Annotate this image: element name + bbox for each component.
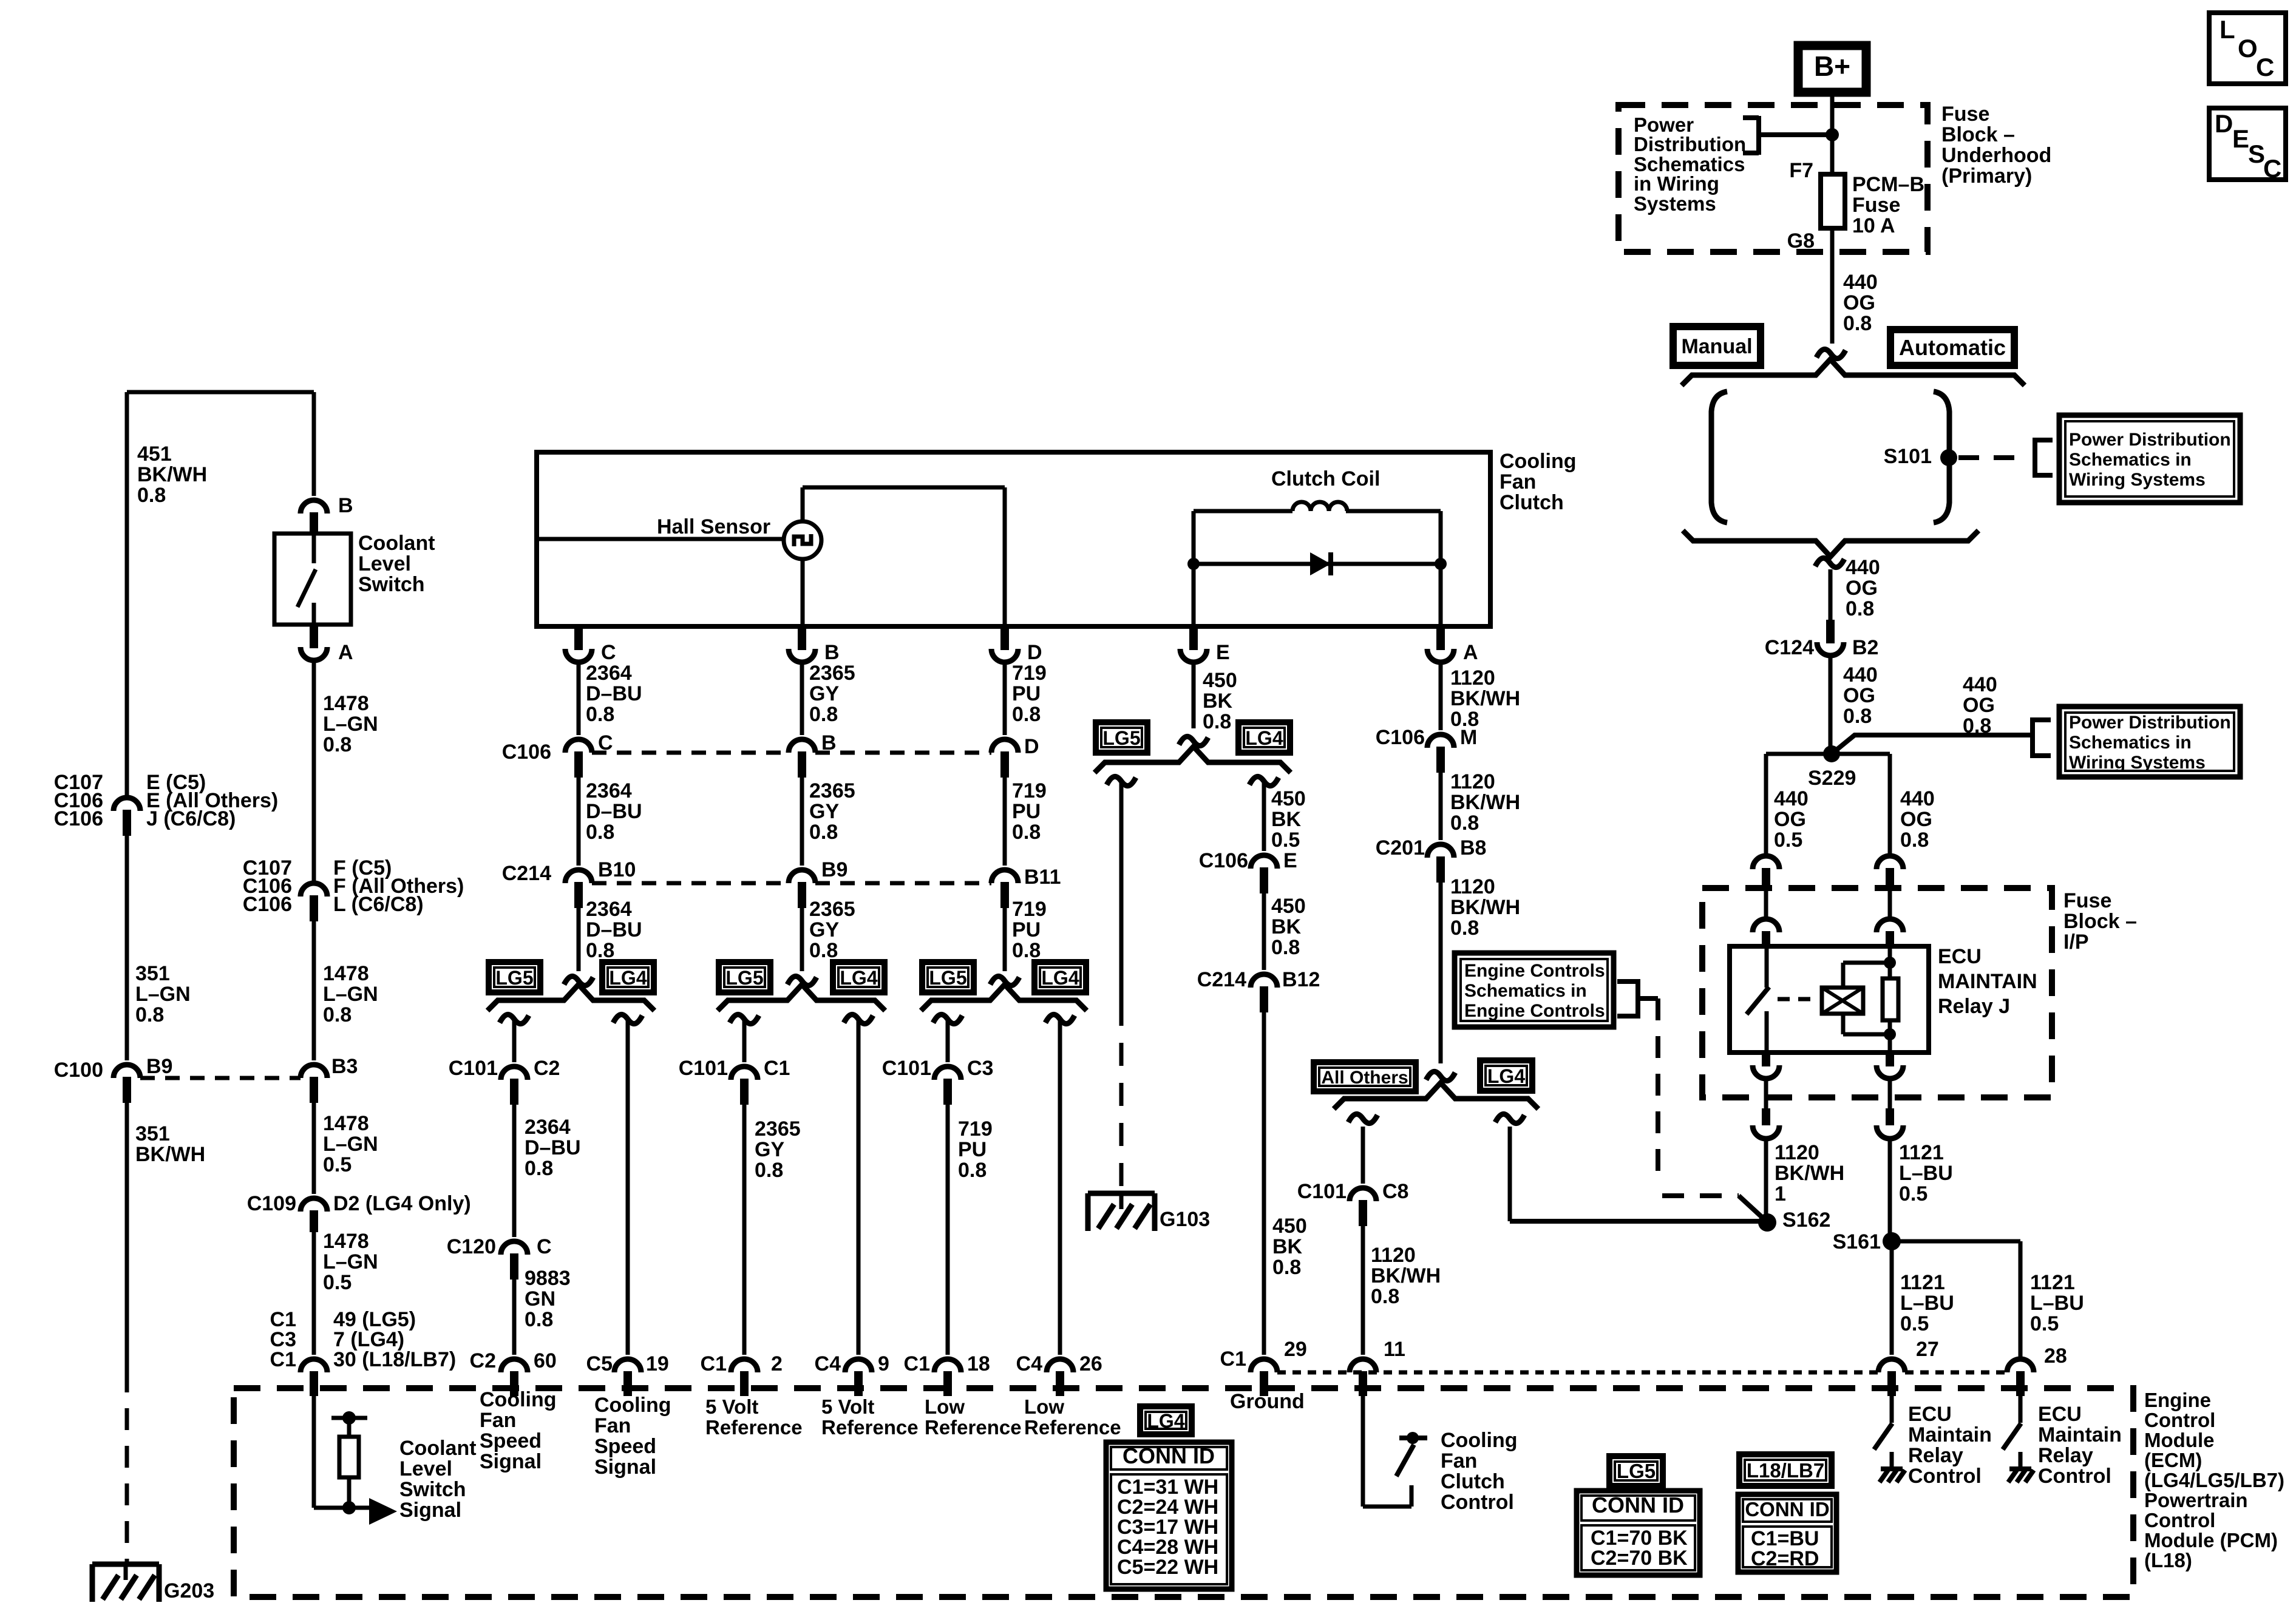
svg-text:Fan: Fan — [480, 1409, 516, 1432]
connector C214 pin B11 — [991, 870, 1018, 883]
svg-text:0.8: 0.8 — [525, 1308, 553, 1331]
svg-text:C: C — [2263, 154, 2281, 183]
wires to LG5/LG4 splits with labels — [577, 901, 581, 971]
split brace — [487, 985, 654, 1011]
svg-text:I/P: I/P — [2063, 931, 2089, 954]
svg-text:C106: C106 — [1376, 726, 1425, 749]
svg-text:C1: C1 — [701, 1352, 727, 1375]
svg-text:10 A: 10 A — [1852, 214, 1895, 237]
svg-text:Schematics in: Schematics in — [2069, 450, 2192, 470]
LG4 branch wire to ECM pin 9 — [857, 1021, 861, 1355]
wire relay to S162, 1120 BK/WH 1 — [1764, 1139, 1768, 1222]
svg-text:0.8: 0.8 — [586, 821, 614, 844]
svg-text:C4: C4 — [1016, 1352, 1043, 1375]
svg-text:LG5: LG5 — [495, 967, 533, 989]
svg-text:Module (PCM): Module (PCM) — [2144, 1529, 2278, 1551]
wire 450 BK 0.8 to ECM pin 29 — [1262, 1005, 1266, 1355]
svg-text:B8: B8 — [1460, 836, 1486, 859]
svg-text:1478: 1478 — [323, 692, 369, 715]
Power Distribution Schematics in Wiring Systems box (S229) — [2059, 707, 2240, 777]
LG5 branch wire to C101 C3 — [946, 1021, 950, 1062]
ECM pin C4/9 connector — [845, 1359, 872, 1372]
wire 1120 BK/WH 0.8 to All Others split — [1439, 875, 1443, 1063]
svg-text:11: 11 — [1384, 1338, 1405, 1361]
svg-text:Low: Low — [1024, 1395, 1064, 1418]
svg-text:C5: C5 — [586, 1352, 613, 1375]
svg-text:Schematics in: Schematics in — [2069, 733, 2192, 753]
fuse block I/P dashed box — [1702, 888, 2052, 1097]
svg-text:G8: G8 — [1787, 229, 1815, 253]
relay feed connector left lower — [1753, 919, 1779, 932]
right branch break — [1495, 1114, 1524, 1123]
wire left down to C100 — [125, 829, 129, 1060]
svg-text:719: 719 — [1012, 898, 1047, 921]
svg-text:440: 440 — [1774, 787, 1809, 810]
svg-text:(Primary): (Primary) — [1941, 164, 2032, 188]
svg-text:L–GN: L–GN — [323, 1250, 378, 1273]
svg-text:BK: BK — [1272, 1235, 1303, 1258]
clutch coil branch — [1192, 511, 1196, 626]
wire C124 to S229, 440 OG 0.8 — [1829, 656, 1833, 754]
ground G203 — [92, 1562, 159, 1567]
svg-text:L–BU: L–BU — [2030, 1292, 2084, 1315]
wire B first segment — [800, 662, 804, 735]
svg-text:L–BU: L–BU — [1900, 1292, 1954, 1315]
left harness bracket — [1711, 392, 1727, 523]
svg-text:LG5: LG5 — [1617, 1460, 1656, 1482]
svg-text:60: 60 — [534, 1349, 557, 1372]
connector pin B at coolant level switch — [301, 500, 327, 514]
svg-text:C106: C106 — [502, 741, 551, 764]
fuse F7 PCM-B 10A — [1821, 174, 1845, 228]
ECM interface dotted row — [1277, 1371, 1878, 1375]
svg-text:C1: C1 — [270, 1348, 296, 1371]
ECM pin C1/29 connector — [1251, 1359, 1277, 1372]
connector C214 pin B9 — [789, 870, 815, 883]
relay switch-to-coil dashed link — [1778, 997, 1818, 1002]
svg-text:451: 451 — [137, 442, 172, 466]
svg-text:G203: G203 — [164, 1579, 214, 1602]
svg-text:Low: Low — [925, 1395, 965, 1418]
wire relay to S161, 1121 L-BU 0.5 — [1888, 1139, 1892, 1241]
ECU MAINTAIN Relay J box — [1730, 946, 1929, 1053]
relay resistor — [1883, 978, 1898, 1020]
svg-text:B9: B9 — [146, 1055, 172, 1078]
connector C124 pin B2 — [1826, 620, 1835, 643]
svg-text:L–BU: L–BU — [1899, 1162, 1953, 1185]
svg-text:Underhood: Underhood — [1941, 144, 2051, 167]
svg-text:LG4: LG4 — [1147, 1410, 1184, 1432]
svg-text:L–GN: L–GN — [135, 983, 191, 1006]
left branch break — [730, 1014, 759, 1023]
right branch wire to S162 — [1508, 1127, 1512, 1221]
svg-text:B12: B12 — [1282, 968, 1320, 991]
svg-text:E: E — [1283, 849, 1297, 872]
connector C120 pin C — [501, 1241, 528, 1255]
svg-text:440: 440 — [1843, 271, 1878, 294]
svg-text:D–BU: D–BU — [586, 682, 642, 705]
svg-text:Ground: Ground — [1230, 1390, 1305, 1413]
svg-text:PU: PU — [1012, 800, 1041, 823]
svg-text:Wiring Systems: Wiring Systems — [2069, 753, 2206, 773]
svg-text:9: 9 — [878, 1352, 889, 1375]
svg-text:440: 440 — [1846, 556, 1880, 579]
svg-text:450: 450 — [1203, 669, 1237, 692]
svg-text:LG4: LG4 — [1041, 967, 1079, 989]
svg-text:9883: 9883 — [525, 1267, 571, 1290]
svg-text:0.5: 0.5 — [2030, 1312, 2059, 1335]
svg-text:B10: B10 — [598, 858, 636, 881]
svg-text:(LG4/LG5/LB7): (LG4/LG5/LB7) — [2144, 1469, 2284, 1491]
svg-text:2365: 2365 — [809, 779, 855, 802]
svg-text:Coolant: Coolant — [399, 1437, 477, 1460]
svg-text:Schematics in: Schematics in — [1464, 981, 1587, 1001]
svg-text:B2: B2 — [1852, 636, 1878, 659]
hall sensor circle — [784, 521, 821, 559]
svg-text:Clutch: Clutch — [1441, 1470, 1505, 1493]
connector C214 pin B12 — [1251, 974, 1277, 988]
LG4 harness box above CONN ID — [1140, 1406, 1192, 1434]
wire 719 PU 0.8 to ECM pin 18 — [946, 1097, 950, 1355]
break above split at 953 — [564, 976, 593, 985]
svg-text:C106: C106 — [243, 893, 292, 916]
svg-text:Powertrain: Powertrain — [2144, 1489, 2248, 1511]
svg-text:C214: C214 — [1197, 968, 1246, 991]
svg-text:0.8: 0.8 — [1843, 312, 1872, 335]
coolant level switch blade — [312, 534, 316, 563]
svg-text:0.5: 0.5 — [1271, 829, 1300, 852]
wire C109 to ECM pin, 1478 L-GN 0.5 — [312, 1229, 316, 1355]
left branch break — [933, 1014, 962, 1023]
svg-text:L–GN: L–GN — [323, 983, 378, 1006]
svg-text:Maintain: Maintain — [1908, 1423, 1992, 1446]
svg-text:1121: 1121 — [2030, 1271, 2075, 1294]
connector C100 pin B9 — [114, 1065, 140, 1078]
L18/LB7 harness box above CONN ID — [1739, 1454, 1832, 1486]
svg-text:1120: 1120 — [1450, 770, 1495, 793]
svg-text:2365: 2365 — [809, 662, 855, 685]
split brace — [921, 985, 1087, 1011]
svg-text:C2: C2 — [470, 1349, 496, 1372]
svg-text:Clutch: Clutch — [1500, 491, 1564, 514]
svg-text:Relay: Relay — [2038, 1444, 2093, 1467]
wire fuse to manual/automatic split, 440 OG 0.8 — [1830, 228, 1835, 344]
svg-text:Relay: Relay — [1908, 1444, 1963, 1467]
wire 1120 BK/WH 0.8 to ECM pin 11 — [1361, 1219, 1365, 1355]
wire box edge to hall sensor — [537, 537, 784, 541]
svg-text:0.8: 0.8 — [1271, 936, 1300, 959]
svg-text:Control: Control — [2038, 1465, 2111, 1488]
LG4 harness box — [602, 962, 654, 992]
svg-text:Reference: Reference — [1024, 1416, 1121, 1439]
right harness bracket — [1934, 392, 1949, 523]
svg-text:D: D — [1024, 735, 1039, 758]
wire 450 BK 0.8 to split — [1192, 662, 1196, 728]
svg-text:G103: G103 — [1160, 1208, 1210, 1231]
svg-text:BK/WH: BK/WH — [137, 463, 207, 486]
svg-text:Block –: Block – — [1941, 123, 2015, 146]
wire into ECM coolant level signal — [312, 1390, 316, 1508]
svg-text:0.8: 0.8 — [1963, 714, 1991, 737]
relay output connector left upper — [1762, 1053, 1770, 1066]
svg-text:C100: C100 — [54, 1059, 103, 1082]
svg-text:2364: 2364 — [586, 779, 632, 802]
svg-text:OG: OG — [1900, 808, 1932, 831]
LG5 CONN ID table — [1577, 1491, 1700, 1575]
connector row C107/C106/C106 E/J on left wire — [114, 798, 140, 811]
svg-text:CONN ID: CONN ID — [1745, 1498, 1829, 1520]
cooling fan clutch control driver — [1361, 1390, 1365, 1507]
LG5 harness box — [922, 962, 974, 992]
LG5 harness box above CONN ID — [1609, 1456, 1663, 1486]
svg-text:1121: 1121 — [1899, 1141, 1944, 1164]
svg-text:Speed: Speed — [594, 1435, 656, 1458]
svg-text:GN: GN — [525, 1287, 555, 1310]
svg-text:Fan: Fan — [1500, 470, 1536, 493]
svg-text:0.8: 0.8 — [1012, 939, 1041, 962]
fuse block underhood dashed box — [1618, 105, 1927, 252]
connector row C107/C106/C106 F/L on switch wire — [301, 883, 327, 897]
svg-text:5 Volt: 5 Volt — [705, 1395, 758, 1418]
svg-text:C1: C1 — [904, 1352, 930, 1375]
break above split at 1321 — [787, 976, 817, 985]
svg-text:Fan: Fan — [594, 1414, 631, 1437]
svg-text:D–BU: D–BU — [525, 1136, 581, 1159]
wires to C214 row with labels — [577, 771, 581, 866]
svg-text:LG5: LG5 — [929, 967, 966, 989]
svg-text:440: 440 — [1843, 663, 1878, 686]
wire B+ to fuse F7 — [1830, 92, 1835, 176]
node junction at B+ feed — [1826, 128, 1839, 141]
svg-text:C101: C101 — [1297, 1180, 1347, 1203]
svg-text:ECU: ECU — [2038, 1403, 2082, 1426]
svg-text:BK: BK — [1203, 690, 1233, 713]
svg-text:B3: B3 — [331, 1055, 358, 1078]
svg-text:0.8: 0.8 — [1843, 705, 1872, 728]
connector pin E below clutch box — [1189, 626, 1198, 650]
relay output connector right upper — [1886, 1053, 1894, 1066]
svg-text:Level: Level — [399, 1457, 452, 1480]
LG5 harness box — [719, 962, 770, 992]
LG4 harness box — [1034, 962, 1086, 992]
ECM pin C5/19 connector — [614, 1359, 641, 1372]
All Others harness box — [1314, 1062, 1416, 1091]
wire 1120 BK/WH 0.8 to C106 M — [1439, 662, 1443, 730]
svg-text:0.5: 0.5 — [1774, 829, 1802, 852]
svg-text:(ECM): (ECM) — [2144, 1449, 2202, 1471]
svg-text:719: 719 — [1012, 662, 1047, 685]
relay coil wiring loop — [1841, 963, 1846, 988]
wire 351 BK/WH below C100 — [125, 1096, 129, 1371]
svg-text:Reference: Reference — [925, 1416, 1022, 1439]
svg-text:Reference: Reference — [821, 1416, 919, 1439]
svg-text:2364: 2364 — [586, 898, 632, 921]
svg-text:19: 19 — [646, 1352, 669, 1375]
svg-text:C: C — [537, 1235, 552, 1258]
svg-text:Reference: Reference — [705, 1416, 803, 1439]
svg-text:0.8: 0.8 — [323, 1003, 352, 1026]
right branch break — [1249, 776, 1279, 785]
svg-text:440: 440 — [1963, 673, 1997, 696]
svg-text:Fuse: Fuse — [1941, 103, 1989, 126]
dashed wire Engine Controls to S162 — [1656, 998, 1660, 1181]
svg-text:C1: C1 — [764, 1057, 790, 1080]
svg-text:B: B — [821, 731, 837, 754]
LG4 branch wire 450 BK 0.5 — [1262, 783, 1266, 851]
svg-text:440: 440 — [1900, 787, 1935, 810]
svg-text:1120: 1120 — [1775, 1141, 1819, 1164]
svg-text:PU: PU — [1012, 918, 1041, 941]
svg-text:LG4: LG4 — [1487, 1065, 1525, 1087]
svg-text:26: 26 — [1079, 1352, 1102, 1375]
svg-text:S: S — [2248, 140, 2265, 168]
svg-text:Engine Controls: Engine Controls — [1464, 961, 1605, 981]
ECM pin 11 connector — [1350, 1359, 1376, 1372]
LG4 branch wire to ECM pin 19 — [626, 1021, 630, 1355]
svg-text:450: 450 — [1271, 787, 1306, 810]
svg-text:D2 (LG4 Only): D2 (LG4 Only) — [333, 1192, 471, 1215]
svg-text:ECU: ECU — [1908, 1403, 1952, 1426]
svg-text:L18/LB7: L18/LB7 — [1747, 1459, 1824, 1482]
L18/LB7 CONN ID table — [1738, 1494, 1836, 1572]
svg-text:Speed: Speed — [480, 1429, 542, 1453]
LG4 harness box — [1480, 1060, 1532, 1091]
connector C214 pin B10 — [565, 870, 592, 883]
svg-text:450: 450 — [1271, 895, 1306, 918]
svg-text:0.8: 0.8 — [586, 703, 614, 726]
bracket to Power Distribution reference (S101) — [2033, 438, 2037, 478]
svg-text:Module: Module — [2144, 1429, 2214, 1451]
coolant level switch signal arrow — [349, 1506, 372, 1510]
svg-text:Switch: Switch — [399, 1478, 466, 1501]
Automatic option box — [1890, 330, 2014, 365]
svg-text:OG: OG — [1843, 684, 1875, 707]
svg-text:0.8: 0.8 — [1900, 829, 1929, 852]
relay output connector right lower — [1886, 1108, 1894, 1125]
svg-text:Wiring Systems: Wiring Systems — [2069, 470, 2206, 490]
svg-text:0.8: 0.8 — [1450, 812, 1479, 835]
svg-text:1478: 1478 — [323, 1230, 369, 1253]
svg-text:Fan: Fan — [1441, 1449, 1477, 1473]
connector C106 pin D — [991, 739, 1018, 753]
svg-text:2365: 2365 — [809, 898, 855, 921]
relay feed connector left upper — [1753, 856, 1779, 869]
svg-text:C101: C101 — [882, 1057, 931, 1080]
LG4 harness box — [833, 962, 885, 992]
ECM pin C1/2 connector — [731, 1359, 758, 1372]
bracket to Power Distribution reference — [1756, 116, 1761, 155]
ECM pin C2/60 connector — [501, 1359, 528, 1372]
svg-text:0.8: 0.8 — [809, 703, 838, 726]
svg-text:BK/WH: BK/WH — [1450, 687, 1520, 710]
ECU maintain relay control driver 27 — [1890, 1390, 1894, 1423]
Manual option box — [1673, 327, 1761, 365]
wire top loop 451 BK/WH 0.8 — [125, 392, 129, 798]
connector C201 pin B8 — [1427, 844, 1454, 858]
svg-text:C106: C106 — [54, 807, 103, 830]
svg-text:2365: 2365 — [755, 1117, 801, 1141]
svg-text:C: C — [601, 641, 616, 664]
Power Distribution Schematics in Wiring Systems box (S101) — [2059, 415, 2240, 503]
connector pin A below clutch box — [1436, 626, 1445, 650]
svg-text:1478: 1478 — [323, 962, 369, 985]
svg-text:BK/WH: BK/WH — [1371, 1264, 1441, 1287]
svg-text:18: 18 — [967, 1352, 990, 1375]
svg-text:Coolant: Coolant — [358, 532, 435, 555]
svg-text:L (C6/C8): L (C6/C8) — [333, 893, 424, 916]
svg-text:719: 719 — [1012, 779, 1047, 802]
diode symbol — [1310, 552, 1331, 575]
LOC legend box — [2209, 13, 2286, 84]
svg-text:C: C — [598, 731, 613, 754]
svg-text:C201: C201 — [1376, 836, 1425, 859]
connector C106 pin B — [789, 739, 815, 753]
connector pin C below clutch box — [574, 626, 583, 650]
svg-text:LG4: LG4 — [840, 967, 877, 989]
connector C101 pin C1 — [731, 1066, 758, 1080]
connector C109 pin D2 — [301, 1198, 327, 1212]
svg-text:B11: B11 — [1024, 866, 1061, 889]
svg-text:0.8: 0.8 — [137, 484, 166, 507]
svg-text:Level: Level — [358, 552, 411, 575]
coolant level pull-up resistor — [331, 1416, 367, 1420]
svg-text:OG: OG — [1963, 694, 1995, 717]
splice S161 — [1883, 1232, 1901, 1250]
svg-text:E: E — [2232, 124, 2249, 153]
svg-text:E: E — [1216, 641, 1230, 664]
svg-text:Cooling: Cooling — [480, 1388, 557, 1411]
svg-text:S161: S161 — [1833, 1230, 1881, 1253]
svg-text:28: 28 — [2044, 1344, 2067, 1368]
svg-text:1120: 1120 — [1371, 1244, 1416, 1267]
dashed connector row C214 (B10/B9/B11) — [592, 881, 789, 886]
wire C first segment — [577, 662, 581, 735]
right branch break — [613, 1014, 642, 1023]
svg-text:D–BU: D–BU — [586, 918, 642, 941]
left branch wire to C101 C8 — [1361, 1127, 1365, 1184]
LG5 branch wire to C101 C1 — [742, 1021, 747, 1062]
svg-text:Engine Controls: Engine Controls — [1464, 1001, 1605, 1021]
svg-text:1: 1 — [1775, 1182, 1786, 1205]
svg-text:Fuse: Fuse — [2063, 889, 2111, 912]
DESC legend box — [2209, 108, 2286, 180]
svg-text:D–BU: D–BU — [586, 800, 642, 823]
left branch break — [1348, 1114, 1377, 1123]
svg-text:C2=RD: C2=RD — [1751, 1547, 1819, 1570]
svg-text:C4: C4 — [815, 1352, 841, 1375]
svg-text:D: D — [1027, 641, 1042, 664]
svg-text:C: C — [2256, 53, 2274, 81]
svg-text:0.8: 0.8 — [809, 939, 838, 962]
svg-text:PCM–B: PCM–B — [1852, 173, 1924, 196]
svg-text:0.8: 0.8 — [1203, 710, 1231, 733]
svg-text:Automatic: Automatic — [1899, 335, 2006, 360]
svg-text:C124: C124 — [1765, 636, 1814, 659]
svg-text:C2=70 BK: C2=70 BK — [1591, 1547, 1688, 1570]
relay output connector left lower — [1762, 1108, 1770, 1125]
break above split at 1966 — [1179, 736, 1208, 745]
splice S101 — [1940, 449, 1957, 466]
svg-text:Power Distribution: Power Distribution — [2069, 713, 2231, 733]
wire 1120 BK/WH 0.8 to C201 B8 — [1439, 765, 1443, 840]
svg-text:Fuse: Fuse — [1852, 194, 1900, 217]
svg-text:Hall Sensor: Hall Sensor — [657, 515, 770, 538]
svg-text:B: B — [338, 494, 353, 517]
svg-text:0.8: 0.8 — [755, 1159, 783, 1182]
svg-text:O: O — [2238, 34, 2258, 63]
svg-text:BK/WH: BK/WH — [135, 1143, 205, 1166]
svg-text:0.8: 0.8 — [1012, 821, 1041, 844]
